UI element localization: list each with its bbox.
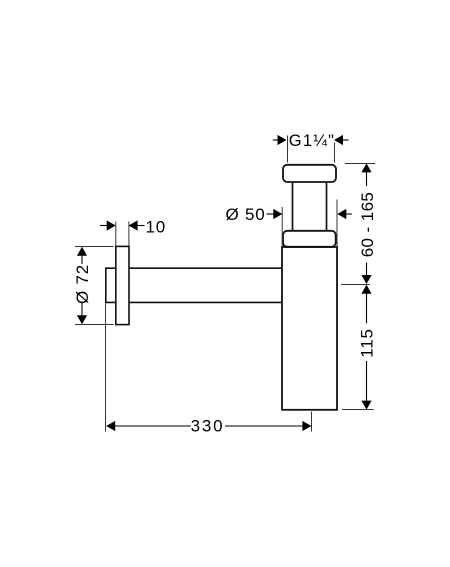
dimension G1 1/4 extension lines bbox=[288, 136, 335, 163]
horizontal pipe bbox=[106, 267, 282, 303]
dimension 10 extension lines bbox=[116, 222, 129, 246]
svg-text:60 - 165: 60 - 165 bbox=[358, 192, 377, 258]
dimension 330 arrows bbox=[106, 421, 311, 431]
dimension G1 1/4 arrows bbox=[278, 135, 344, 145]
svg-text:G1¼": G1¼" bbox=[289, 132, 335, 150]
svg-text:330: 330 bbox=[191, 417, 225, 436]
dimension 115 line bbox=[366, 293, 368, 401]
wall flange bbox=[116, 246, 129, 324]
svg-text:Ø 72: Ø 72 bbox=[73, 264, 92, 304]
dimension 330 line bbox=[115, 425, 303, 427]
dimension 115 extension line bbox=[342, 409, 374, 411]
svg-text:115: 115 bbox=[357, 328, 376, 358]
dimension D72 extension lines bbox=[75, 247, 114, 325]
compression nut bbox=[283, 231, 336, 247]
dimension 10 arrows bbox=[107, 220, 138, 230]
dimension D72 line bbox=[81, 254, 83, 317]
dimension 115 arrows bbox=[361, 285, 371, 410]
dimension 60-165 extension lines bbox=[341, 164, 375, 285]
svg-text:10: 10 bbox=[146, 217, 167, 236]
dimension 330 extension lines bbox=[106, 303, 312, 431]
tailpipe bbox=[293, 182, 327, 231]
dimension D72 arrows bbox=[77, 247, 87, 324]
trap body bbox=[282, 247, 337, 410]
dimension 60-165 arrows bbox=[361, 163, 371, 284]
dimension D50 extension lines bbox=[282, 200, 337, 247]
top nut bbox=[283, 165, 336, 182]
dimension 60-165 line bbox=[366, 170, 368, 277]
dimension D50 arrows bbox=[273, 209, 346, 219]
svg-text:Ø 50: Ø 50 bbox=[225, 205, 265, 224]
